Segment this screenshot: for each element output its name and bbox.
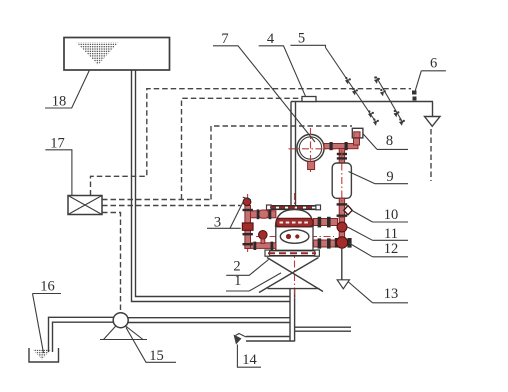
svg-text:6: 6 [430,56,437,72]
svg-text:5: 5 [298,30,305,46]
svg-text:14: 14 [242,352,257,368]
svg-text:2: 2 [233,259,240,275]
svg-text:7: 7 [221,31,228,47]
svg-text:11: 11 [384,226,398,242]
svg-text:8: 8 [386,133,393,149]
svg-text:12: 12 [384,241,399,257]
svg-text:13: 13 [384,286,399,302]
svg-text:15: 15 [149,348,164,364]
svg-text:10: 10 [384,207,399,223]
svg-text:18: 18 [52,94,67,110]
svg-text:16: 16 [40,279,55,295]
svg-text:9: 9 [386,169,393,185]
svg-text:4: 4 [267,31,275,47]
